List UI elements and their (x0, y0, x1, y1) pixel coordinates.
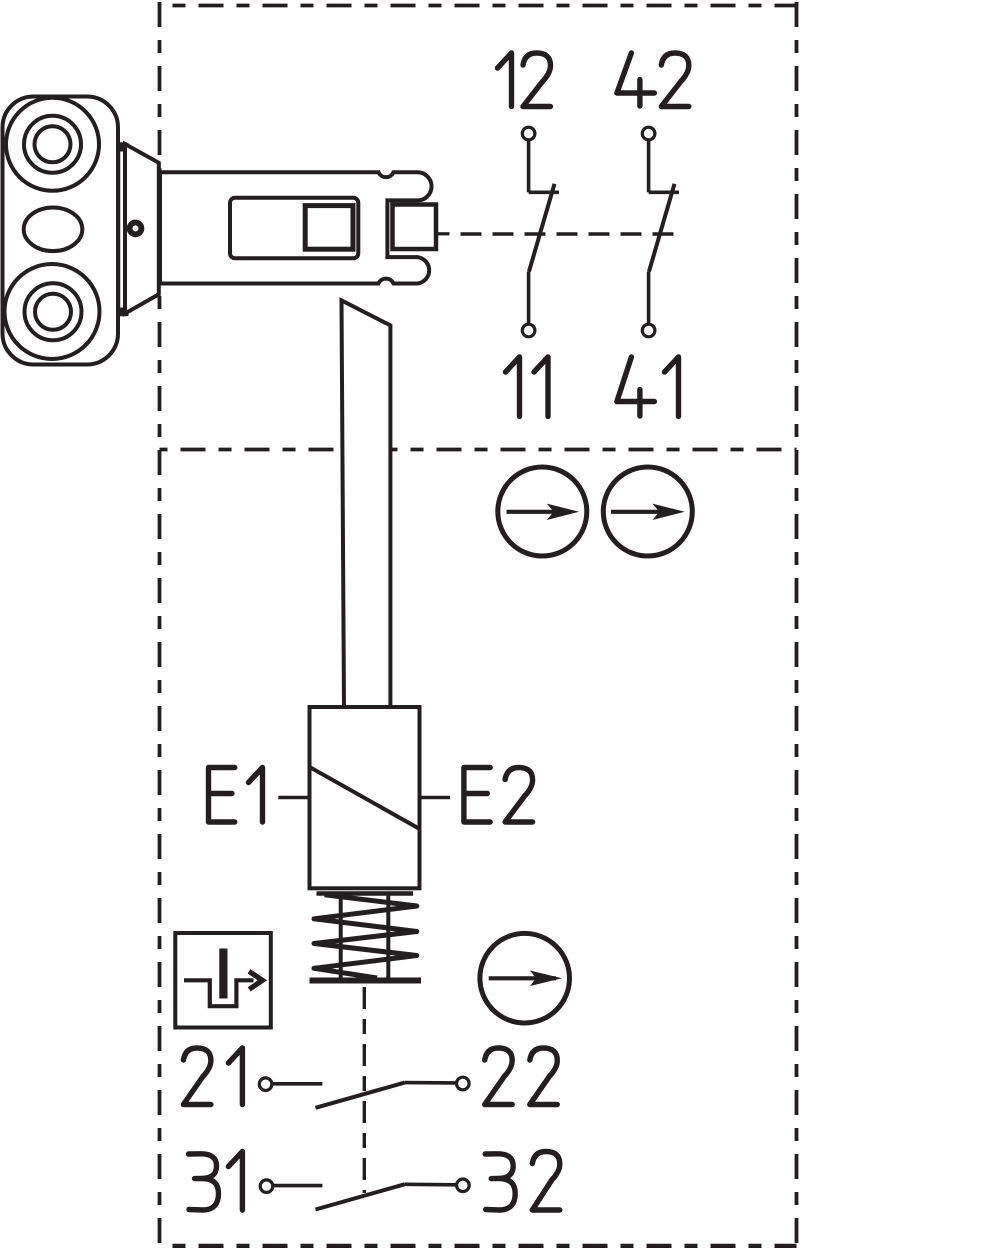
actuator top roller middle (24, 116, 81, 173)
spring top plate (317, 891, 414, 896)
terminal circle 11 (522, 324, 535, 337)
direction arrow 3 (489, 971, 562, 987)
plunger bar (342, 300, 391, 709)
contact NC 42-41 blade (649, 184, 675, 272)
contact NC 42-41 wire bottom (647, 272, 651, 325)
plunger travel dashed line (363, 987, 366, 1193)
switch head outline (160, 172, 432, 283)
spring guide left (339, 895, 343, 979)
terminal circle 31 (260, 1180, 273, 1193)
mounting plate top cap (116, 143, 129, 152)
terminal circle 32 (457, 1179, 470, 1192)
contact 31-32 blade (316, 1184, 405, 1209)
terminal circle 21 (259, 1078, 272, 1091)
head flange trapezoid (125, 144, 159, 314)
actuator bottom roller outer (5, 264, 100, 359)
contact 21-22 wire right (405, 1081, 457, 1085)
terminal circle 12 (522, 127, 535, 140)
spring guide right (386, 895, 390, 979)
enclosure border bottom (dash-dot) (160, 1244, 797, 1248)
solenoid box (310, 707, 420, 888)
actuator bottom roller inner (35, 294, 71, 330)
spring bottom plate (310, 978, 422, 984)
actuation dashed link line (450, 232, 677, 235)
module divider line (dash-dot) (160, 448, 797, 452)
contact NC 12-11 seat tick (529, 191, 559, 195)
label 32 (485, 1152, 560, 1211)
flange screw (130, 223, 142, 235)
enclosure border right (dash-dot) (795, 2, 799, 1248)
head inner window (230, 198, 358, 258)
enclosure border top (dash-dot) (160, 4, 797, 8)
direction symbol circle 2 (603, 467, 692, 556)
contact NC 42-41 seat tick (649, 191, 679, 195)
label 11 (506, 357, 549, 417)
direction symbol circle 3 (480, 933, 570, 1023)
contact 21-22 blade (316, 1083, 405, 1108)
overtravel channel (184, 980, 254, 1006)
direction arrow 1 (507, 504, 580, 520)
actuator top roller inner (35, 126, 71, 162)
actuator middle slot (24, 208, 83, 252)
bolt lead wire (436, 232, 450, 235)
label 22 (485, 1048, 558, 1105)
E2 lead (421, 796, 451, 799)
spring zigzag (314, 895, 417, 978)
actuator top roller outer (6, 98, 99, 191)
contact 21-22 fixed wire (272, 1082, 322, 1086)
terminal circle 41 (642, 324, 655, 337)
head inner block (305, 206, 353, 250)
terminal circle 42 (642, 127, 655, 140)
enclosure border left (dash-dot) (158, 2, 162, 1248)
contact NC 42-41 wire top (647, 140, 651, 193)
solenoid diagonal (310, 767, 419, 828)
contact 31-32 wire right (405, 1183, 457, 1187)
actuator body (3, 97, 119, 365)
label 42 (617, 53, 689, 107)
overtravel symbol box (175, 933, 270, 1028)
contact NC 12-11 blade (529, 184, 555, 272)
direction symbol circle 1 (498, 467, 587, 556)
overtravel plunger bar (219, 949, 227, 999)
label 31 (189, 1152, 243, 1211)
label E2 (464, 768, 533, 823)
label 21 (183, 1048, 242, 1105)
direction arrow 2 (611, 504, 685, 520)
mounting plate bottom cap (116, 308, 129, 317)
latch bolt square (393, 205, 437, 250)
mounting plate (119, 144, 126, 315)
contact NC 12-11 wire bottom (527, 272, 531, 325)
E1 lead (278, 796, 309, 799)
label 41 (617, 357, 679, 417)
actuator bottom roller middle (25, 283, 82, 340)
label E1 (209, 768, 263, 823)
overtravel arrow head (249, 971, 262, 989)
contact 31-32 fixed wire (273, 1184, 322, 1188)
label 12 (498, 53, 551, 107)
terminal circle 22 (457, 1077, 470, 1090)
contact NC 12-11 wire top (527, 140, 531, 193)
